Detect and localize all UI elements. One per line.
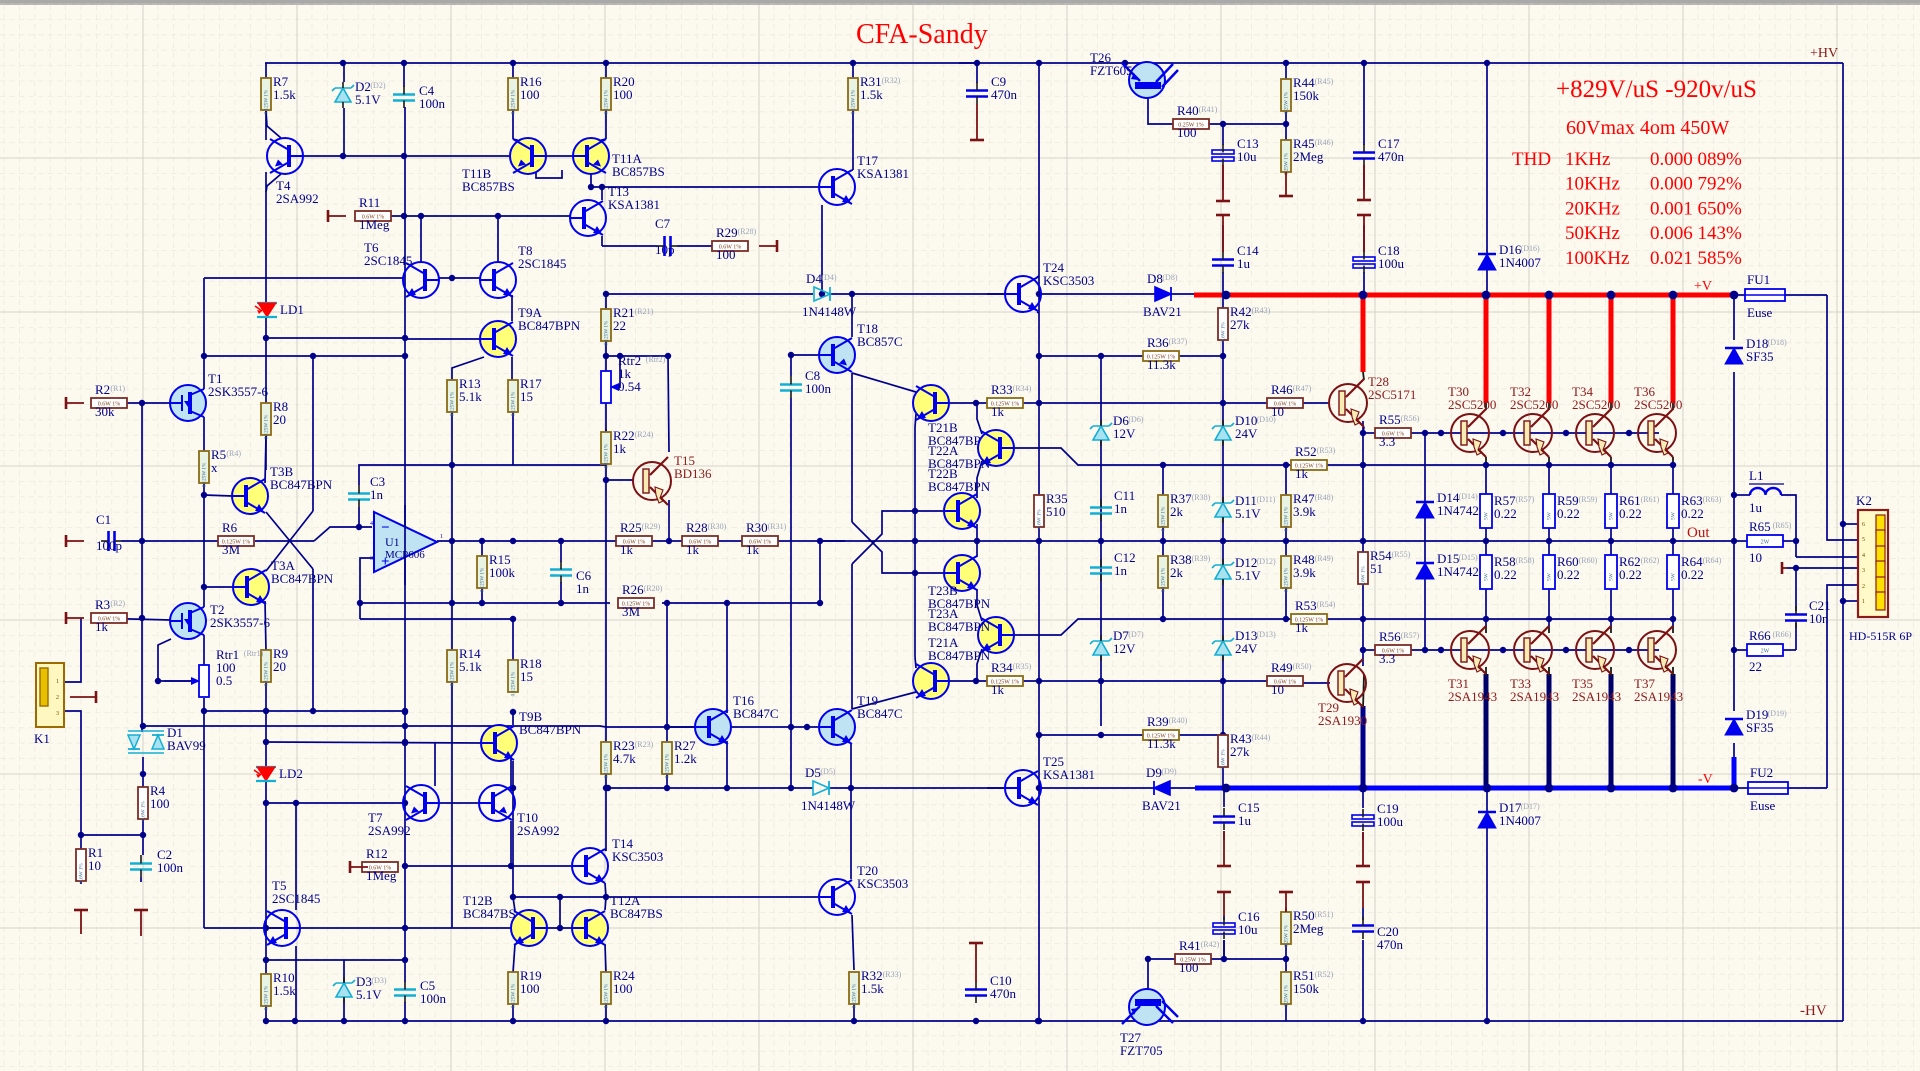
wire T21A base to R34 <box>947 680 987 682</box>
svg-text:0.22: 0.22 <box>1681 567 1704 582</box>
transistor T7 <box>368 785 439 838</box>
fuse FU2 <box>1748 765 1788 813</box>
resistor R61 <box>1605 493 1660 528</box>
svg-text:51: 51 <box>1370 561 1383 576</box>
svg-text:Euse: Euse <box>1747 305 1773 320</box>
svg-text:1.2k: 1.2k <box>674 751 697 766</box>
svg-text:(R60): (R60) <box>1579 556 1598 565</box>
wire T20 collector <box>850 788 852 879</box>
svg-text:FZT705: FZT705 <box>1120 1043 1163 1058</box>
wire R11 row <box>391 215 570 217</box>
wire T21A emitter diag <box>915 657 916 668</box>
wire R41 row <box>1148 958 1175 960</box>
power stub <box>975 943 977 982</box>
svg-text:5W: 5W <box>1671 572 1677 581</box>
wire T37 collector pin <box>1672 619 1674 626</box>
svg-text:-V: -V <box>1698 772 1713 787</box>
resistor R48 <box>1281 552 1334 592</box>
wire R12 row <box>402 865 571 867</box>
wire bottom row links <box>266 959 405 961</box>
svg-text:1.5k: 1.5k <box>273 983 296 998</box>
wire T36 emitter column <box>1672 457 1674 465</box>
svg-text:LD2: LD2 <box>279 766 303 781</box>
resistor R65 <box>1747 519 1792 565</box>
wire T7 T10 base row <box>266 802 403 804</box>
resistor R53 <box>1291 598 1336 635</box>
wire row y726 right <box>405 726 695 727</box>
wire R23 column <box>605 774 607 788</box>
svg-text:1n: 1n <box>370 487 384 502</box>
svg-text:1u: 1u <box>1238 813 1252 828</box>
svg-text:100: 100 <box>716 247 736 262</box>
svg-text:(R42): (R42) <box>1201 940 1220 949</box>
wire cross to U1 minus <box>314 527 372 541</box>
resistor R27 <box>662 738 697 778</box>
svg-text:R3: R3 <box>95 597 110 612</box>
diode D16 <box>1478 242 1541 270</box>
wire C5 bottom <box>404 1002 406 1021</box>
wire FU1 wires <box>1733 294 1745 296</box>
wire C21 column <box>1795 568 1797 611</box>
wire x405 over U1 <box>404 505 406 585</box>
transistor T18 <box>819 321 903 373</box>
wire R66 right <box>1780 649 1796 651</box>
wire T23A collector <box>977 649 982 681</box>
svg-text:1.5k: 1.5k <box>273 87 296 102</box>
resistor R5 <box>199 447 241 487</box>
capacitor C16 <box>1213 909 1260 939</box>
wire feedback row y603 <box>360 602 610 604</box>
wire T13 collector up <box>601 187 603 200</box>
svg-text:0.25W 1%: 0.25W 1% <box>1284 152 1290 175</box>
svg-text:LD1: LD1 <box>280 302 304 317</box>
wire row y465 mid <box>452 464 606 466</box>
wire column x266 LD2 to T5 <box>265 781 267 910</box>
svg-text:2SK3557-6: 2SK3557-6 <box>210 615 270 630</box>
svg-text:12V: 12V <box>1113 426 1136 441</box>
wire R65 right <box>1780 540 1796 542</box>
svg-text:KSA1381: KSA1381 <box>1043 767 1095 782</box>
wire T2 lower to Rtr1 <box>203 635 205 665</box>
svg-text:50KHz: 50KHz <box>1565 223 1620 244</box>
svg-text:D9: D9 <box>1146 765 1162 780</box>
wire T24 base <box>987 293 1005 295</box>
svg-text:1N4148W: 1N4148W <box>802 304 857 319</box>
svg-text:1.5k: 1.5k <box>860 87 883 102</box>
wire T12 bases riser <box>559 897 561 928</box>
svg-text:KSC3503: KSC3503 <box>1043 273 1094 288</box>
wire T6 T8 base row <box>204 277 403 279</box>
svg-text:(R44): (R44) <box>1252 733 1271 742</box>
resistor R7 <box>261 74 296 114</box>
resistor R43 <box>1218 731 1271 769</box>
wire R39 row <box>1111 734 1143 736</box>
wire C1 to R6 <box>121 540 219 542</box>
resistor R51 <box>1281 968 1334 1007</box>
wire C15 column <box>1223 788 1225 807</box>
wire R46 to T28 <box>1303 402 1330 404</box>
svg-text:3.9k: 3.9k <box>1293 565 1316 580</box>
capacitor C19 <box>1352 801 1404 831</box>
wire R36 left join <box>1039 355 1111 357</box>
wire FU2 wires <box>1733 787 1748 789</box>
wire T1 gate <box>91 402 171 404</box>
svg-text:(R49): (R49) <box>1315 554 1334 563</box>
wire row y726 <box>143 725 405 727</box>
wire T26 base lead <box>1148 90 1173 124</box>
svg-text:5W: 5W <box>1484 511 1490 520</box>
resistor R15 <box>477 552 516 592</box>
svg-text:FU2: FU2 <box>1750 765 1773 780</box>
svg-text:-HV: -HV <box>1800 1003 1827 1019</box>
svg-text:(Rtr1): (Rtr1) <box>244 649 264 658</box>
wire D5 row <box>606 787 667 789</box>
wire C20 column <box>1362 908 1364 920</box>
svg-text:KSC3503: KSC3503 <box>857 876 908 891</box>
svg-text:1KHz: 1KHz <box>1565 149 1610 170</box>
svg-text:470n: 470n <box>1377 937 1404 952</box>
svg-text:1k: 1k <box>1295 466 1309 481</box>
wire R16 column <box>512 63 514 78</box>
wire T22B emitter <box>976 524 978 541</box>
svg-text:0.6W 1%: 0.6W 1% <box>79 863 85 883</box>
wire K1 pin3 column <box>65 711 81 849</box>
junction dots on -V bus <box>1222 784 1231 793</box>
power stub <box>70 696 96 698</box>
svg-text:10p: 10p <box>655 242 675 257</box>
svg-text:150k: 150k <box>1293 981 1320 996</box>
resistor R31 <box>848 74 901 114</box>
transistor T12B <box>463 893 547 946</box>
wire T12B emitter diag <box>513 944 515 973</box>
resistor R1 <box>76 845 103 883</box>
svg-text:0.6W 1%: 0.6W 1% <box>1221 749 1227 769</box>
wire R53 right emitter row <box>1327 618 1673 620</box>
wire C9 stub row <box>959 62 977 64</box>
power stub <box>1223 831 1225 866</box>
transistor T3A <box>233 558 334 605</box>
wire T1 source to R5 <box>203 417 205 451</box>
diode D8 <box>1143 271 1182 319</box>
svg-text:0.125W 1%: 0.125W 1% <box>480 567 486 592</box>
capacitor C12 <box>1090 550 1136 581</box>
svg-text:SF35: SF35 <box>1746 349 1773 364</box>
svg-text:(R32): (R32) <box>882 76 901 85</box>
wire T21A collector diag <box>852 692 916 709</box>
svg-text:10u: 10u <box>1238 922 1258 937</box>
zener diode D11 <box>1212 493 1276 523</box>
resistor R33 <box>987 382 1032 419</box>
svg-text:150k: 150k <box>1293 88 1320 103</box>
transistor T23B <box>928 555 991 611</box>
wire T16 T19 base join <box>731 726 818 728</box>
svg-text:1Meg: 1Meg <box>359 217 390 232</box>
svg-text:R40: R40 <box>1177 103 1199 118</box>
svg-text:Euse: Euse <box>1750 798 1776 813</box>
wire R27 column <box>666 727 668 742</box>
resistor R29 <box>712 225 757 262</box>
wire R23 below to T14 collector <box>605 788 607 851</box>
svg-text:0.25W 1%: 0.25W 1% <box>1284 924 1290 947</box>
svg-text:(R34): (R34) <box>1013 384 1032 393</box>
+V bus drop T28 <box>1361 295 1366 372</box>
svg-text:(D7): (D7) <box>1128 630 1143 639</box>
diode D4 <box>802 271 857 319</box>
svg-text:30k: 30k <box>95 404 115 419</box>
svg-text:0.6W 1%: 0.6W 1% <box>1361 566 1367 586</box>
svg-text:R11: R11 <box>359 195 380 210</box>
transistor T13 <box>570 184 660 236</box>
resistor R37 <box>1158 491 1211 531</box>
wire cluster emitter column x915 <box>914 427 916 657</box>
svg-text:0.22: 0.22 <box>1494 567 1517 582</box>
svg-text:0.125W 1%: 0.125W 1% <box>604 89 610 114</box>
svg-text:10n: 10n <box>1809 611 1829 626</box>
svg-text:D5: D5 <box>805 765 821 780</box>
svg-text:100: 100 <box>1179 960 1199 975</box>
wire T5 emitter to rail <box>295 946 297 1021</box>
wire T21B collector diag <box>852 373 916 392</box>
svg-text:R52: R52 <box>1295 444 1317 459</box>
diode D18 <box>1725 336 1787 364</box>
svg-text:BC847C: BC847C <box>733 706 779 721</box>
wire R33 right <box>1023 402 1039 404</box>
resistor R50 <box>1281 908 1334 947</box>
svg-text:D4: D4 <box>806 271 822 286</box>
svg-text:FZT605: FZT605 <box>1090 63 1133 78</box>
power stub <box>1222 215 1224 252</box>
transistor T22A <box>928 430 1014 471</box>
svg-text:4.7k: 4.7k <box>613 751 636 766</box>
wire T18 collector up <box>851 294 853 337</box>
JFET T1 <box>170 371 268 421</box>
wire T12A emitter diag <box>605 944 606 973</box>
wire T16 emitter <box>726 741 728 788</box>
diode D1 BAV99 <box>128 725 206 753</box>
wire T23B emitter <box>976 589 978 605</box>
svg-text:(R58): (R58) <box>1516 556 1535 565</box>
wire R1 to stub <box>80 881 82 884</box>
power stub <box>66 402 84 404</box>
capacitor C6 <box>550 561 592 596</box>
op-amp U1 MCP606 <box>370 512 443 572</box>
svg-text:1u: 1u <box>1237 256 1251 271</box>
resistor R4 <box>138 783 170 821</box>
svg-text:27k: 27k <box>1230 317 1250 332</box>
svg-text:10u: 10u <box>1237 149 1257 164</box>
svg-text:1N4742: 1N4742 <box>1437 564 1479 579</box>
svg-text:(R61): (R61) <box>1641 495 1660 504</box>
svg-text:D8: D8 <box>1147 271 1163 286</box>
zener diode D2 <box>332 79 386 108</box>
transistor T8 <box>480 243 566 298</box>
svg-text:0.22: 0.22 <box>1557 567 1580 582</box>
wire T4 emitter <box>266 174 281 192</box>
wire R36 row <box>1111 355 1143 357</box>
svg-text:C1: C1 <box>96 512 111 527</box>
resistor R6 <box>218 520 254 557</box>
wire T14 emitter <box>605 883 606 897</box>
svg-text:0.125W 1%: 0.125W 1% <box>1161 567 1167 592</box>
power stub <box>350 866 368 868</box>
svg-text:(D12): (D12) <box>1257 557 1276 566</box>
wire T24 collector <box>1037 276 1039 277</box>
wire T11A-T13 row <box>591 174 819 187</box>
svg-text:(R2): (R2) <box>110 599 125 608</box>
resistor R17 <box>508 376 542 416</box>
svg-text:0.125W 1%: 0.125W 1% <box>202 462 208 487</box>
resistor R22 <box>601 428 654 468</box>
connector K1 <box>34 663 64 746</box>
wire K2 pin6 to +HV rail <box>1843 523 1858 525</box>
wire T17 emitter down <box>821 205 823 294</box>
wire T17 collector <box>852 169 853 171</box>
trimmer Rtr2 <box>601 353 666 403</box>
wire C2 stub link <box>140 877 142 882</box>
resistor R66 <box>1747 628 1792 674</box>
svg-text:THD: THD <box>1512 149 1551 170</box>
svg-text:2SA1930: 2SA1930 <box>1318 713 1367 728</box>
svg-text:100KHz: 100KHz <box>1565 248 1629 269</box>
capacitor C4 <box>393 83 446 111</box>
svg-text:1k: 1k <box>991 404 1005 419</box>
wire C3 top loop <box>359 465 452 485</box>
wire T24 to D8 <box>1039 293 1155 295</box>
wire T24 emitter <box>1037 312 1039 313</box>
svg-text:0.125W 1%: 0.125W 1% <box>264 89 270 114</box>
wire right border rail <box>1842 63 1844 1021</box>
svg-text:(R57): (R57) <box>1401 631 1420 640</box>
wire column x405 <box>404 107 406 982</box>
wire T21B base to R33 <box>947 402 987 404</box>
resistor R21 <box>601 305 654 345</box>
svg-text:BAV21: BAV21 <box>1142 798 1181 813</box>
svg-text:510: 510 <box>1046 504 1066 519</box>
svg-text:0.125W 1%: 0.125W 1% <box>665 753 671 778</box>
svg-text:R2: R2 <box>95 382 110 397</box>
svg-text:470n: 470n <box>991 87 1018 102</box>
power stub <box>66 540 84 542</box>
svg-text:0.125W 1%: 0.125W 1% <box>511 983 517 1008</box>
wire R54 column <box>1362 421 1364 552</box>
transistor T4 <box>267 138 319 206</box>
wire out line right <box>820 540 1734 542</box>
capacitor C8 <box>780 368 832 398</box>
capacitor C17 <box>1353 136 1405 166</box>
wire x204 column low <box>203 711 205 928</box>
power stub <box>80 910 82 934</box>
fuse FU1 <box>1745 272 1785 320</box>
wire D9 out <box>1170 787 1195 789</box>
svg-text:1Meg: 1Meg <box>366 868 397 883</box>
wire C17 column <box>1363 63 1365 145</box>
power stub <box>1362 882 1364 908</box>
svg-text:1N4148W: 1N4148W <box>801 798 856 813</box>
svg-text:3: 3 <box>1862 568 1865 574</box>
svg-text:U1: U1 <box>385 535 400 549</box>
svg-text:0.021 585%: 0.021 585% <box>1650 248 1742 269</box>
wire T9A base row <box>405 338 480 340</box>
svg-text:(R48): (R48) <box>1315 493 1334 502</box>
wire FU1 to K2 pin5 <box>1827 295 1858 540</box>
transistor T25 <box>1005 754 1095 806</box>
resistor R55 <box>1375 412 1420 449</box>
svg-text:470n: 470n <box>990 986 1017 1001</box>
transistor T5 <box>264 878 320 946</box>
wire T22A out row <box>1014 448 1291 465</box>
svg-text:1k: 1k <box>620 542 634 557</box>
resistor R20 <box>601 74 635 114</box>
svg-text:0.001 650%: 0.001 650% <box>1650 198 1742 219</box>
svg-text:2SC5200: 2SC5200 <box>1448 397 1496 412</box>
transistor T22B <box>928 466 991 529</box>
transistor T37 <box>1638 626 1676 674</box>
svg-text:R30: R30 <box>746 520 768 535</box>
svg-text:(R55): (R55) <box>1392 550 1411 559</box>
wire R24 column <box>605 1004 607 1021</box>
svg-text:1N4742: 1N4742 <box>1437 503 1479 518</box>
svg-text:(R21): (R21) <box>635 307 654 316</box>
svg-text:10: 10 <box>1271 682 1284 697</box>
wire R6 to cross <box>255 540 314 542</box>
resistor R34 <box>987 660 1032 697</box>
svg-text:100n: 100n <box>420 991 447 1006</box>
svg-text:(R40): (R40) <box>1169 716 1188 725</box>
resistor R60 <box>1543 554 1598 589</box>
connector K2 <box>1849 493 1912 643</box>
svg-text:(R35): (R35) <box>1013 662 1032 671</box>
capacitor C1 <box>96 512 122 553</box>
svg-text:(R38): (R38) <box>1192 493 1211 502</box>
power stub <box>976 104 978 140</box>
wire T27 base riser <box>1147 959 1149 1000</box>
wire K2 pin3 gnd link <box>1787 567 1858 569</box>
junction dots on +V bus <box>1222 291 1231 300</box>
wire R56 row <box>1363 649 1375 651</box>
capacitor C21 <box>1785 598 1831 628</box>
wire column x266 lower <box>265 677 267 767</box>
wire source follower column <box>203 483 205 607</box>
wire x360 bracket <box>359 603 361 619</box>
power stub <box>66 617 84 619</box>
LED LD2 <box>254 766 303 781</box>
transistor T9B <box>481 709 582 761</box>
wire T28 collector pin <box>1363 372 1364 380</box>
wire C6 bottom <box>560 582 562 603</box>
resistor R44 <box>1281 75 1334 114</box>
wire C13 column <box>1222 124 1224 145</box>
svg-text:5.1k: 5.1k <box>459 389 482 404</box>
svg-text:2SA992: 2SA992 <box>368 823 411 838</box>
wire T29 collector <box>1363 674 1364 708</box>
resistor R11 <box>355 195 391 232</box>
svg-text:BC847C: BC847C <box>857 706 903 721</box>
svg-text:22: 22 <box>1749 659 1762 674</box>
svg-text:3M: 3M <box>222 542 241 557</box>
+V bus <box>1194 293 1733 298</box>
svg-text:100n: 100n <box>805 381 832 396</box>
svg-text:1k: 1k <box>95 619 109 634</box>
wire R39 left join <box>1039 734 1111 736</box>
svg-text:0.125W 1%: 0.125W 1% <box>511 89 517 114</box>
svg-text:KSA1381: KSA1381 <box>857 166 909 181</box>
svg-text:BC847BPN: BC847BPN <box>270 477 333 492</box>
svg-text:0.125W 1%: 0.125W 1% <box>264 661 270 686</box>
svg-text:2SC1845: 2SC1845 <box>364 253 412 268</box>
wire T9B collector <box>512 712 514 725</box>
wire T35 collector pin <box>1610 619 1612 626</box>
wire R14 to T12B <box>451 682 453 928</box>
